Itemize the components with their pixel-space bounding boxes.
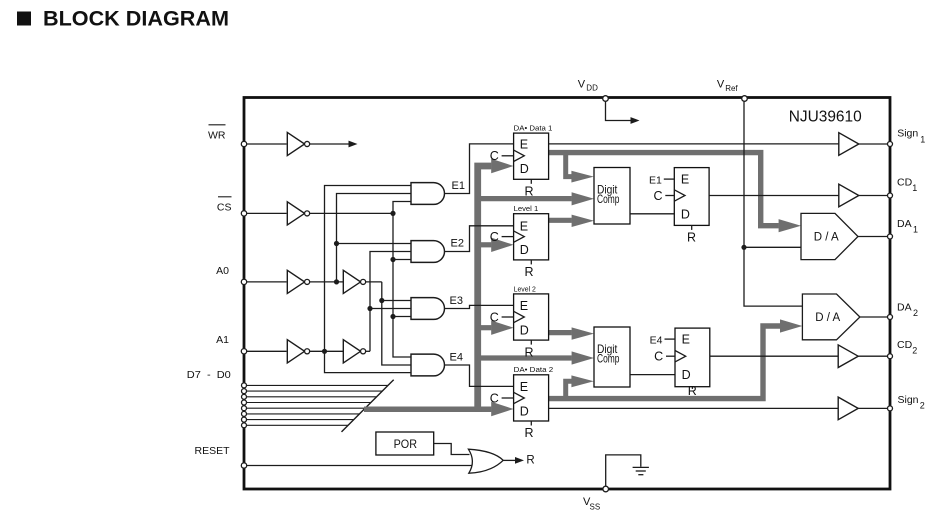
svg-text:C: C xyxy=(490,230,499,244)
svg-text:Comp: Comp xyxy=(597,192,620,206)
terminal VRef xyxy=(742,96,748,102)
A1 input label xyxy=(216,334,229,346)
wire Digit Comp 2 to FF2 D xyxy=(630,374,675,376)
wire A1 buffered branch to E3 xyxy=(370,308,411,310)
wire data bus main horizontal xyxy=(364,406,491,412)
svg-text:Ref: Ref xyxy=(725,84,738,93)
wire CD1 from FF1 xyxy=(709,195,839,197)
port label Sign1 xyxy=(897,127,925,144)
wire DA-Data2 bus stub to Digit Comp 2 xyxy=(566,375,594,398)
svg-text:D: D xyxy=(520,404,529,418)
latch Level2 (U3) xyxy=(490,286,549,359)
wire E4 to DA-Data2 latch xyxy=(444,365,513,386)
AND gate E1 xyxy=(411,183,444,205)
wire CD1 output xyxy=(859,195,890,197)
WR input label xyxy=(208,125,226,142)
svg-text:D / A: D / A xyxy=(815,312,840,324)
wire Level1 output bus to Digit Comp 1 xyxy=(549,215,594,227)
label R internal reset net xyxy=(526,455,534,467)
svg-text:1: 1 xyxy=(920,134,925,144)
svg-text:DA: DA xyxy=(897,218,912,230)
svg-text:DA: DA xyxy=(897,302,912,314)
label E2 xyxy=(451,238,464,250)
svg-text:C: C xyxy=(490,391,499,405)
wire CD2 from FF2 xyxy=(710,355,838,357)
svg-text:E2: E2 xyxy=(451,238,464,250)
wire POR to OR gate xyxy=(434,444,470,455)
title text BLOCK DIAGRAM xyxy=(43,6,229,31)
wire /CS net down to E4 xyxy=(393,213,411,357)
wire DA1 output xyxy=(858,236,890,238)
port label CD1 xyxy=(897,177,917,194)
wire /CS branch to E3 xyxy=(393,316,411,318)
svg-text:1: 1 xyxy=(912,183,917,193)
svg-text:R: R xyxy=(687,230,696,244)
svg-text:2: 2 xyxy=(913,308,918,318)
port label Sign2 xyxy=(898,394,925,411)
wire DA-Data1 output bus to D/A 1 xyxy=(549,153,801,233)
terminals left border xyxy=(241,141,246,468)
wire data bus branch to Level 1 D xyxy=(478,238,514,252)
terminals right border xyxy=(888,142,893,411)
svg-text:E1: E1 xyxy=(649,174,662,186)
wire data bus arrow into DA-Data2 D xyxy=(491,402,513,416)
wire data bus arrow into DA-Data1 D xyxy=(491,159,513,173)
wire CS input xyxy=(244,212,287,214)
wire A1 inverted xyxy=(310,350,344,352)
wire /CS branch to E2 xyxy=(393,259,411,261)
AND gate E2 xyxy=(411,241,444,263)
arrow R internal xyxy=(515,457,524,464)
svg-text:R: R xyxy=(525,426,534,440)
POR block xyxy=(376,432,434,455)
svg-text:Sign: Sign xyxy=(898,394,919,406)
svg-text:D: D xyxy=(520,323,529,337)
svg-text:E4: E4 xyxy=(450,351,463,363)
wire Level2 output bus to Digit Comp 2 xyxy=(549,327,594,339)
AND gate E4 xyxy=(411,354,444,376)
wire /A1 net to E1 and E4 xyxy=(325,186,412,373)
node /A0 junction on A0 row xyxy=(334,279,339,284)
ground symbol xyxy=(633,467,649,474)
wire WR inverter output xyxy=(310,143,349,145)
inverter A1 second xyxy=(343,340,365,363)
wire data bus main vertical riser xyxy=(478,166,492,412)
svg-text:E: E xyxy=(681,173,689,187)
wire A0 input xyxy=(244,281,287,283)
svg-text:R: R xyxy=(526,455,534,467)
svg-text:POR: POR xyxy=(394,437,418,451)
node /A0 branch junction xyxy=(334,241,339,246)
VSS label xyxy=(583,496,600,512)
svg-text:C: C xyxy=(654,350,663,364)
wire DA2 output xyxy=(860,316,890,318)
svg-text:R: R xyxy=(525,345,534,359)
svg-text:V: V xyxy=(717,79,725,91)
svg-text:Level 2: Level 2 xyxy=(514,286,536,293)
wire A0 buffered branch to E3 xyxy=(382,300,411,302)
svg-text:D: D xyxy=(681,207,690,221)
buffer CD1 xyxy=(839,184,859,207)
wire data bus branch to Digit Comp 2 xyxy=(478,351,594,364)
digit comparator 1 xyxy=(594,168,630,225)
svg-text:2: 2 xyxy=(912,346,917,356)
svg-text:E: E xyxy=(520,138,528,152)
inverter A0 second xyxy=(343,270,365,293)
D/A converter 2 xyxy=(802,294,860,340)
digit comparator 2 xyxy=(594,327,630,387)
svg-text:D / A: D / A xyxy=(814,231,839,243)
svg-text:E: E xyxy=(520,299,528,313)
svg-text:D: D xyxy=(520,243,529,257)
svg-text:D7 - D0: D7 - D0 xyxy=(187,369,231,381)
buffer Sign2 xyxy=(838,397,858,420)
inverter WR xyxy=(287,132,309,155)
inverter CS xyxy=(287,202,309,225)
svg-text:C: C xyxy=(490,149,499,163)
svg-text:Sign: Sign xyxy=(897,127,918,139)
port label DA2 xyxy=(897,302,918,319)
wire VDD feed xyxy=(606,102,632,121)
D/A converter 1 xyxy=(801,213,858,259)
svg-text:A0: A0 xyxy=(216,265,229,277)
label E1 xyxy=(452,180,465,192)
svg-text:2: 2 xyxy=(920,401,925,411)
latch DA-Data2 (U4) xyxy=(490,367,554,440)
label E4 xyxy=(450,351,463,363)
svg-text:RESET: RESET xyxy=(194,445,230,457)
svg-text:C: C xyxy=(653,189,662,203)
svg-text:NJU39610: NJU39610 xyxy=(789,109,862,126)
wire /A0 branch to E2 xyxy=(337,243,412,245)
svg-text:CD: CD xyxy=(897,177,913,189)
wire RESET input xyxy=(244,465,472,467)
wire WR input xyxy=(244,143,287,145)
OR gate reset xyxy=(468,449,503,473)
wire A1 buffered xyxy=(366,350,370,352)
svg-text:R: R xyxy=(688,384,697,398)
svg-text:R: R xyxy=(525,185,534,199)
wire /A0 net to E1 xyxy=(337,194,412,282)
wire A1 buffered net to E2 xyxy=(370,252,411,352)
wire CD2 output xyxy=(858,355,890,357)
buffer Sign1 xyxy=(839,133,859,156)
wire data bus branch to Level 2 D xyxy=(478,321,514,335)
svg-text:DD: DD xyxy=(586,84,598,93)
terminal VSS xyxy=(603,486,609,492)
node /A1 junction xyxy=(322,349,327,354)
node A0 buffered junction xyxy=(379,298,384,303)
wire E3 to Level2 latch xyxy=(444,305,513,308)
wire OR output R xyxy=(503,459,516,461)
wire E2 to Level1 latch xyxy=(444,226,513,252)
node A1 buffered junction xyxy=(367,306,372,311)
svg-text:Comp: Comp xyxy=(597,351,620,365)
svg-text:DA• Data 1: DA• Data 1 xyxy=(514,126,553,133)
A0 input label xyxy=(216,265,229,277)
wire E1 to DA-Data1 latch xyxy=(444,144,513,194)
wire CS inverter output xyxy=(310,212,393,214)
latch Level1 (U2) xyxy=(490,206,549,279)
svg-text:E4: E4 xyxy=(650,334,663,346)
VDD label xyxy=(578,79,598,93)
bus slash xyxy=(342,380,394,432)
svg-text:D: D xyxy=(520,162,529,176)
inverter A0 first xyxy=(287,270,309,293)
wire DA-Data2 output bus to D/A 2 xyxy=(549,319,803,398)
title bullet square xyxy=(17,12,31,26)
chip name NJU39610 xyxy=(789,109,862,126)
wire data bus branch to Digit Comp 1 xyxy=(478,192,594,205)
wire VRef branch into D/A 1 xyxy=(744,246,801,248)
wire Sign2 output xyxy=(858,407,890,409)
VRef label xyxy=(717,79,739,93)
wire Sign1 output xyxy=(859,143,890,145)
svg-text:CS: CS xyxy=(217,201,232,213)
arrow VDD distribution xyxy=(631,117,640,124)
svg-text:D: D xyxy=(682,368,691,382)
port label CD2 xyxy=(897,339,917,356)
svg-text:SS: SS xyxy=(590,503,601,512)
svg-text:DA• Data 2: DA• Data 2 xyxy=(514,367,554,374)
wire D7-D0 bus lines xyxy=(244,385,388,425)
arrow WR internal xyxy=(349,141,358,148)
port label DA1 xyxy=(897,218,918,235)
RESET input label xyxy=(194,445,230,457)
D7-D0 label xyxy=(187,369,231,381)
wire A0 buffered xyxy=(366,281,382,283)
svg-text:CD: CD xyxy=(897,339,913,351)
wire A0 buffered net to E4 xyxy=(382,282,411,365)
svg-text:C: C xyxy=(490,310,499,324)
wire Sign2 from DA-Data2 xyxy=(549,407,839,409)
flip-flop CD2 (U6) xyxy=(650,328,710,398)
svg-text:E1: E1 xyxy=(452,180,465,192)
AND gate E3 xyxy=(411,298,444,320)
svg-text:E: E xyxy=(520,380,528,394)
node /CS junction on CS row xyxy=(390,211,395,216)
wire VRef vertical and into D/A 2 xyxy=(744,102,802,306)
wire A1 input xyxy=(244,350,287,352)
inverter A1 first xyxy=(287,340,309,363)
svg-text:1: 1 xyxy=(913,225,918,235)
svg-text:E: E xyxy=(682,333,690,347)
wire Sign1 from DA-Data1 xyxy=(549,143,839,145)
svg-text:WR: WR xyxy=(208,130,226,142)
node /CS junction E2 xyxy=(390,257,395,262)
wire DA-Data1 bus stub to Digit Comp 1 xyxy=(566,153,594,183)
svg-text:A1: A1 xyxy=(216,334,229,346)
svg-text:BLOCK DIAGRAM: BLOCK DIAGRAM xyxy=(43,6,229,31)
svg-text:V: V xyxy=(578,79,586,91)
buffer CD2 xyxy=(838,345,858,368)
wire VSS to ground xyxy=(606,455,641,487)
label E3 xyxy=(450,295,463,307)
wire A0 inverted xyxy=(310,281,344,283)
svg-text:R: R xyxy=(525,265,534,279)
svg-text:E: E xyxy=(520,219,528,233)
svg-text:E3: E3 xyxy=(450,295,463,307)
wire /CS net up to E1 xyxy=(393,202,411,214)
flip-flop CD1 (U5) xyxy=(649,168,709,245)
wire Digit Comp 1 to FF1 D xyxy=(630,213,674,215)
svg-text:Level 1: Level 1 xyxy=(514,206,539,213)
node /CS junction E3 xyxy=(390,314,395,319)
CS input label xyxy=(217,197,232,214)
terminal VDD xyxy=(603,96,609,102)
chip boundary rectangle xyxy=(244,98,890,490)
latch DA-Data1 (U1) xyxy=(490,126,553,199)
node VRef junction xyxy=(741,245,746,250)
